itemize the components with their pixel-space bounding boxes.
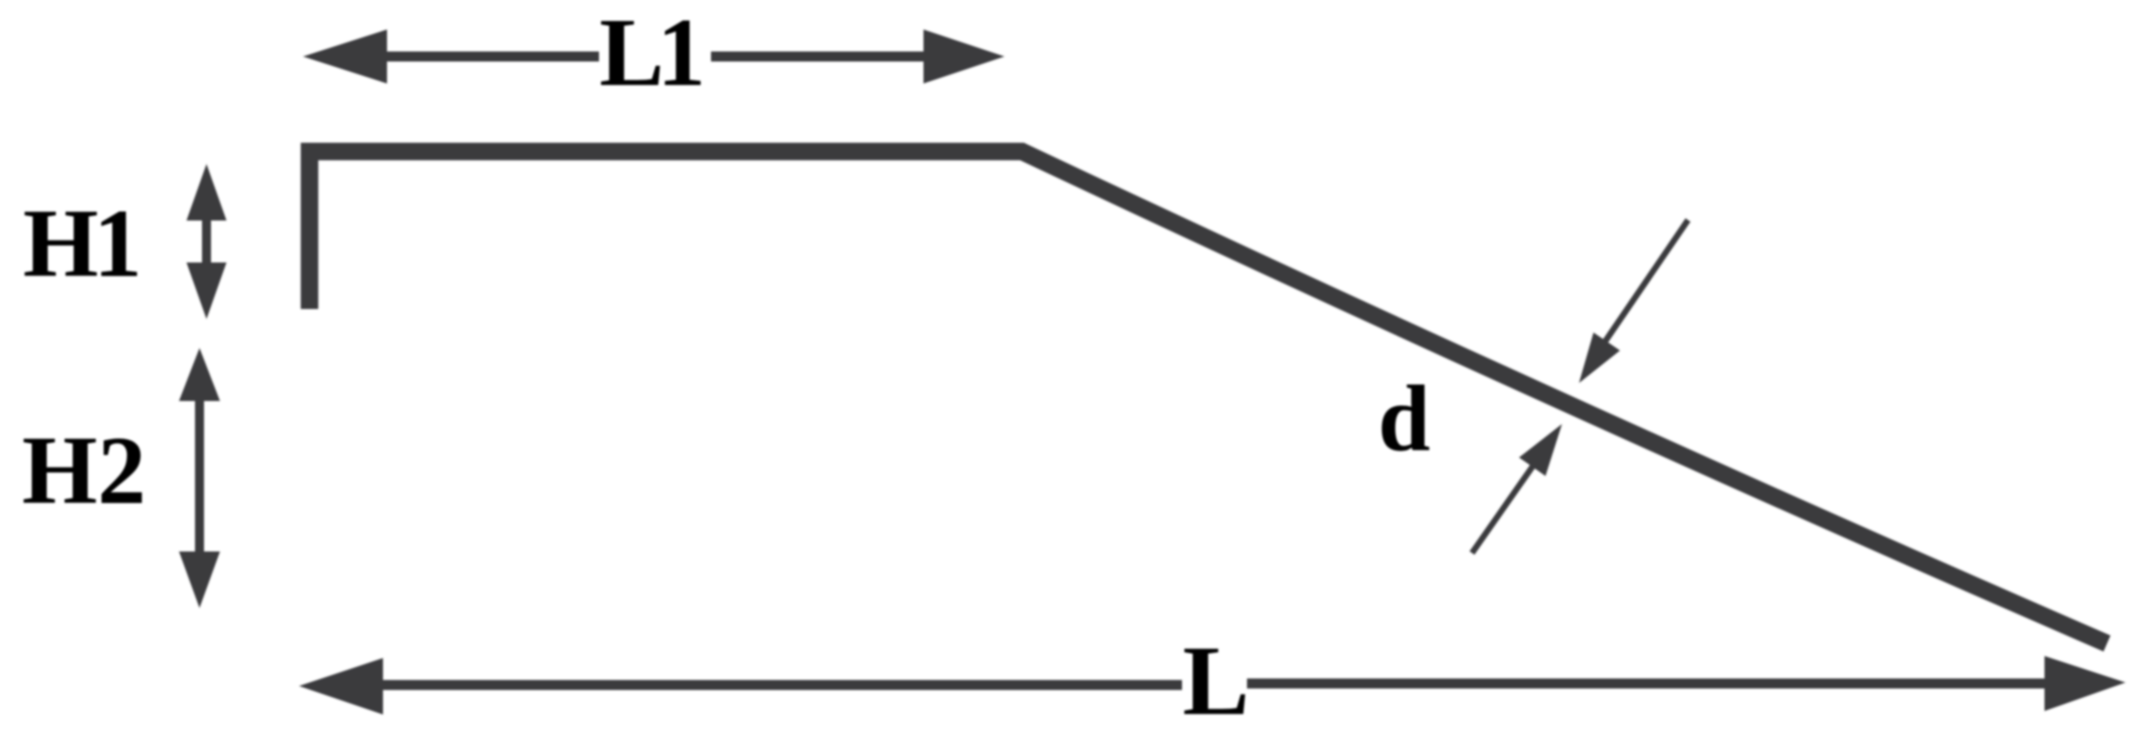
- dimension arrow H2: [179, 348, 220, 608]
- L1 right arrowhead: [924, 30, 1005, 84]
- svg-text:L1: L1: [599, 0, 701, 106]
- profile outline (vertical edge, top flat, sloped face): [310, 152, 2108, 644]
- H2 down arrowhead: [179, 552, 220, 609]
- L1 shaft right segment: [711, 52, 925, 62]
- svg-text:H2: H2: [22, 417, 146, 524]
- H2 shaft: [195, 400, 204, 552]
- dimension arrow L1: [303, 30, 1005, 84]
- L left arrowhead: [299, 658, 383, 715]
- H1 shaft: [202, 220, 211, 263]
- L shaft right segment: [1247, 679, 2045, 689]
- svg-text:L: L: [1183, 625, 1250, 736]
- svg-text:H1: H1: [23, 190, 137, 297]
- L shaft left segment: [382, 680, 1182, 690]
- dimension arrow H1: [187, 164, 227, 319]
- H1 down arrowhead: [187, 263, 227, 320]
- svg-text:d: d: [1378, 367, 1430, 471]
- L right arrowhead: [2045, 656, 2126, 711]
- H1 up arrowhead: [187, 164, 227, 221]
- H2 up arrowhead: [179, 348, 220, 401]
- dimension arrow L: [299, 656, 2126, 715]
- thickness callout upper arrow: [1579, 220, 1688, 383]
- L1 shaft left segment: [386, 52, 599, 62]
- L1 left arrowhead: [303, 30, 387, 84]
- thickness callout lower arrow: [1472, 424, 1562, 553]
